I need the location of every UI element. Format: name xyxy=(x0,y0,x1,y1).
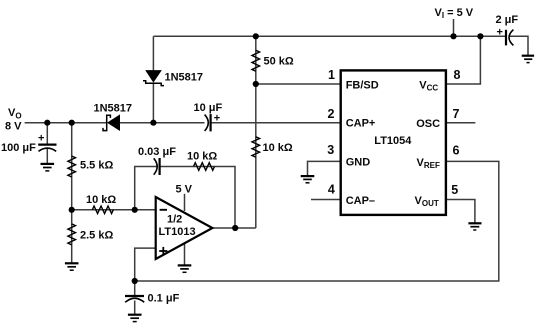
svg-text:50 kΩ: 50 kΩ xyxy=(264,56,294,68)
svg-text:1N5817: 1N5817 xyxy=(94,103,133,115)
svg-text:5 V: 5 V xyxy=(176,184,193,196)
svg-text:2.5 kΩ: 2.5 kΩ xyxy=(80,230,113,242)
node pin8 riser junction xyxy=(477,33,483,39)
wire opamp 5V stub xyxy=(184,194,186,211)
diode D2 1N5817 vertical xyxy=(143,71,164,86)
node divider junction xyxy=(69,207,75,213)
wire VREF loop xyxy=(135,161,499,281)
wire opamp output xyxy=(212,227,256,229)
svg-text:7: 7 xyxy=(453,107,460,121)
svg-text:LT1013: LT1013 xyxy=(159,226,196,238)
capacitor C 2uF xyxy=(506,30,513,46)
svg-text:10 kΩ: 10 kΩ xyxy=(86,194,116,206)
wire FB riser xyxy=(255,84,257,228)
svg-text:10 kΩ: 10 kΩ xyxy=(263,142,293,154)
svg-text:LT1054: LT1054 xyxy=(374,135,412,147)
wire top rail xyxy=(153,35,505,37)
ground 2.5k xyxy=(65,263,79,270)
ground GND pin xyxy=(301,176,315,183)
svg-text:FB/SD: FB/SD xyxy=(346,79,379,91)
svg-text:VO: VO xyxy=(8,107,22,121)
wire OSC stub xyxy=(445,122,475,124)
node 5.5k top junction xyxy=(69,120,75,126)
svg-text:1/2: 1/2 xyxy=(167,214,182,226)
wire pin8 riser xyxy=(445,36,480,84)
resistor 50k xyxy=(252,50,260,71)
resistor 10k input (horizontal) xyxy=(92,206,113,214)
svg-text:+: + xyxy=(497,27,503,39)
wire VO main rail xyxy=(25,122,106,124)
svg-text:0.1 μF: 0.1 μF xyxy=(148,293,180,305)
wire 2uF to ground corner xyxy=(510,36,528,55)
svg-text:CAP–: CAP– xyxy=(346,195,375,207)
diode D1 1N5817 horizontal xyxy=(103,115,120,130)
svg-text:5.5 kΩ: 5.5 kΩ xyxy=(80,160,113,172)
node output junction xyxy=(232,225,238,231)
resistor 10k feedback (horizontal) xyxy=(194,163,215,171)
node 100uF junction xyxy=(44,120,50,126)
node inverting junction xyxy=(132,207,138,213)
svg-text:3: 3 xyxy=(327,143,334,157)
ground 2uF xyxy=(522,56,534,63)
svg-text:2: 2 xyxy=(328,107,335,121)
node FB/SD junction xyxy=(253,81,259,87)
wire VI stub xyxy=(453,19,455,36)
resistor 5.5k xyxy=(68,156,76,177)
svg-text:+: + xyxy=(38,133,44,145)
wire feedback left leg xyxy=(135,167,157,210)
wire VOUT to ground xyxy=(445,200,475,223)
wire feedback right leg xyxy=(159,167,235,229)
wire noninverting input xyxy=(135,248,156,281)
svg-text:6: 6 xyxy=(453,144,460,158)
svg-text:OSC: OSC xyxy=(416,118,440,130)
ground 0.1uF xyxy=(128,315,142,322)
node VREF/0.1uF junction xyxy=(132,278,138,284)
svg-text:4: 4 xyxy=(328,183,335,197)
wire D2 branch vertical xyxy=(152,36,154,70)
wire 5.5k branch xyxy=(71,123,73,210)
ground 100uF xyxy=(41,164,55,171)
svg-text:1N5817: 1N5817 xyxy=(165,72,204,84)
ground VOUT xyxy=(468,223,481,230)
svg-text:VI = 5 V: VI = 5 V xyxy=(435,7,474,20)
capacitor C 0.1uF xyxy=(125,296,144,302)
capacitor C 10uF xyxy=(205,114,211,131)
node 50k top junction xyxy=(253,33,259,39)
wire GND pin stub xyxy=(308,161,342,175)
svg-text:10 kΩ: 10 kΩ xyxy=(187,151,217,163)
svg-text:100 μF: 100 μF xyxy=(1,142,36,154)
IC U1 LT1054 xyxy=(341,70,446,215)
capacitor C 0.03uF xyxy=(154,158,160,175)
svg-text:GND: GND xyxy=(346,157,371,169)
resistor 2.5k xyxy=(68,224,76,245)
node VI rail junction xyxy=(450,33,456,39)
node D2 junction xyxy=(150,120,156,126)
wire inverting input xyxy=(72,209,156,211)
wire CAP- stub xyxy=(311,199,341,201)
svg-text:5: 5 xyxy=(451,183,458,197)
svg-text:8 V: 8 V xyxy=(5,121,22,133)
svg-text:+: + xyxy=(214,112,220,124)
svg-text:2 μF: 2 μF xyxy=(496,14,519,26)
ground op-amp xyxy=(178,265,192,272)
wire 100uF stem xyxy=(46,123,48,144)
svg-text:0.03 μF: 0.03 μF xyxy=(138,146,176,158)
wire FB/SD to IC xyxy=(256,83,341,85)
resistor 10k vertical (to FB) xyxy=(252,137,260,157)
wire 2.5k branch xyxy=(71,210,73,263)
op-amp U2 1/2 LT1013 xyxy=(156,197,213,259)
capacitor C 100uF polarized xyxy=(38,145,56,152)
svg-text:1: 1 xyxy=(328,68,335,82)
svg-text:8: 8 xyxy=(454,68,461,82)
wire 50k branch xyxy=(255,36,257,84)
svg-text:CAP+: CAP+ xyxy=(346,118,376,130)
wire opamp gnd stem xyxy=(184,243,186,265)
wire 0.1uF stem xyxy=(134,281,136,295)
